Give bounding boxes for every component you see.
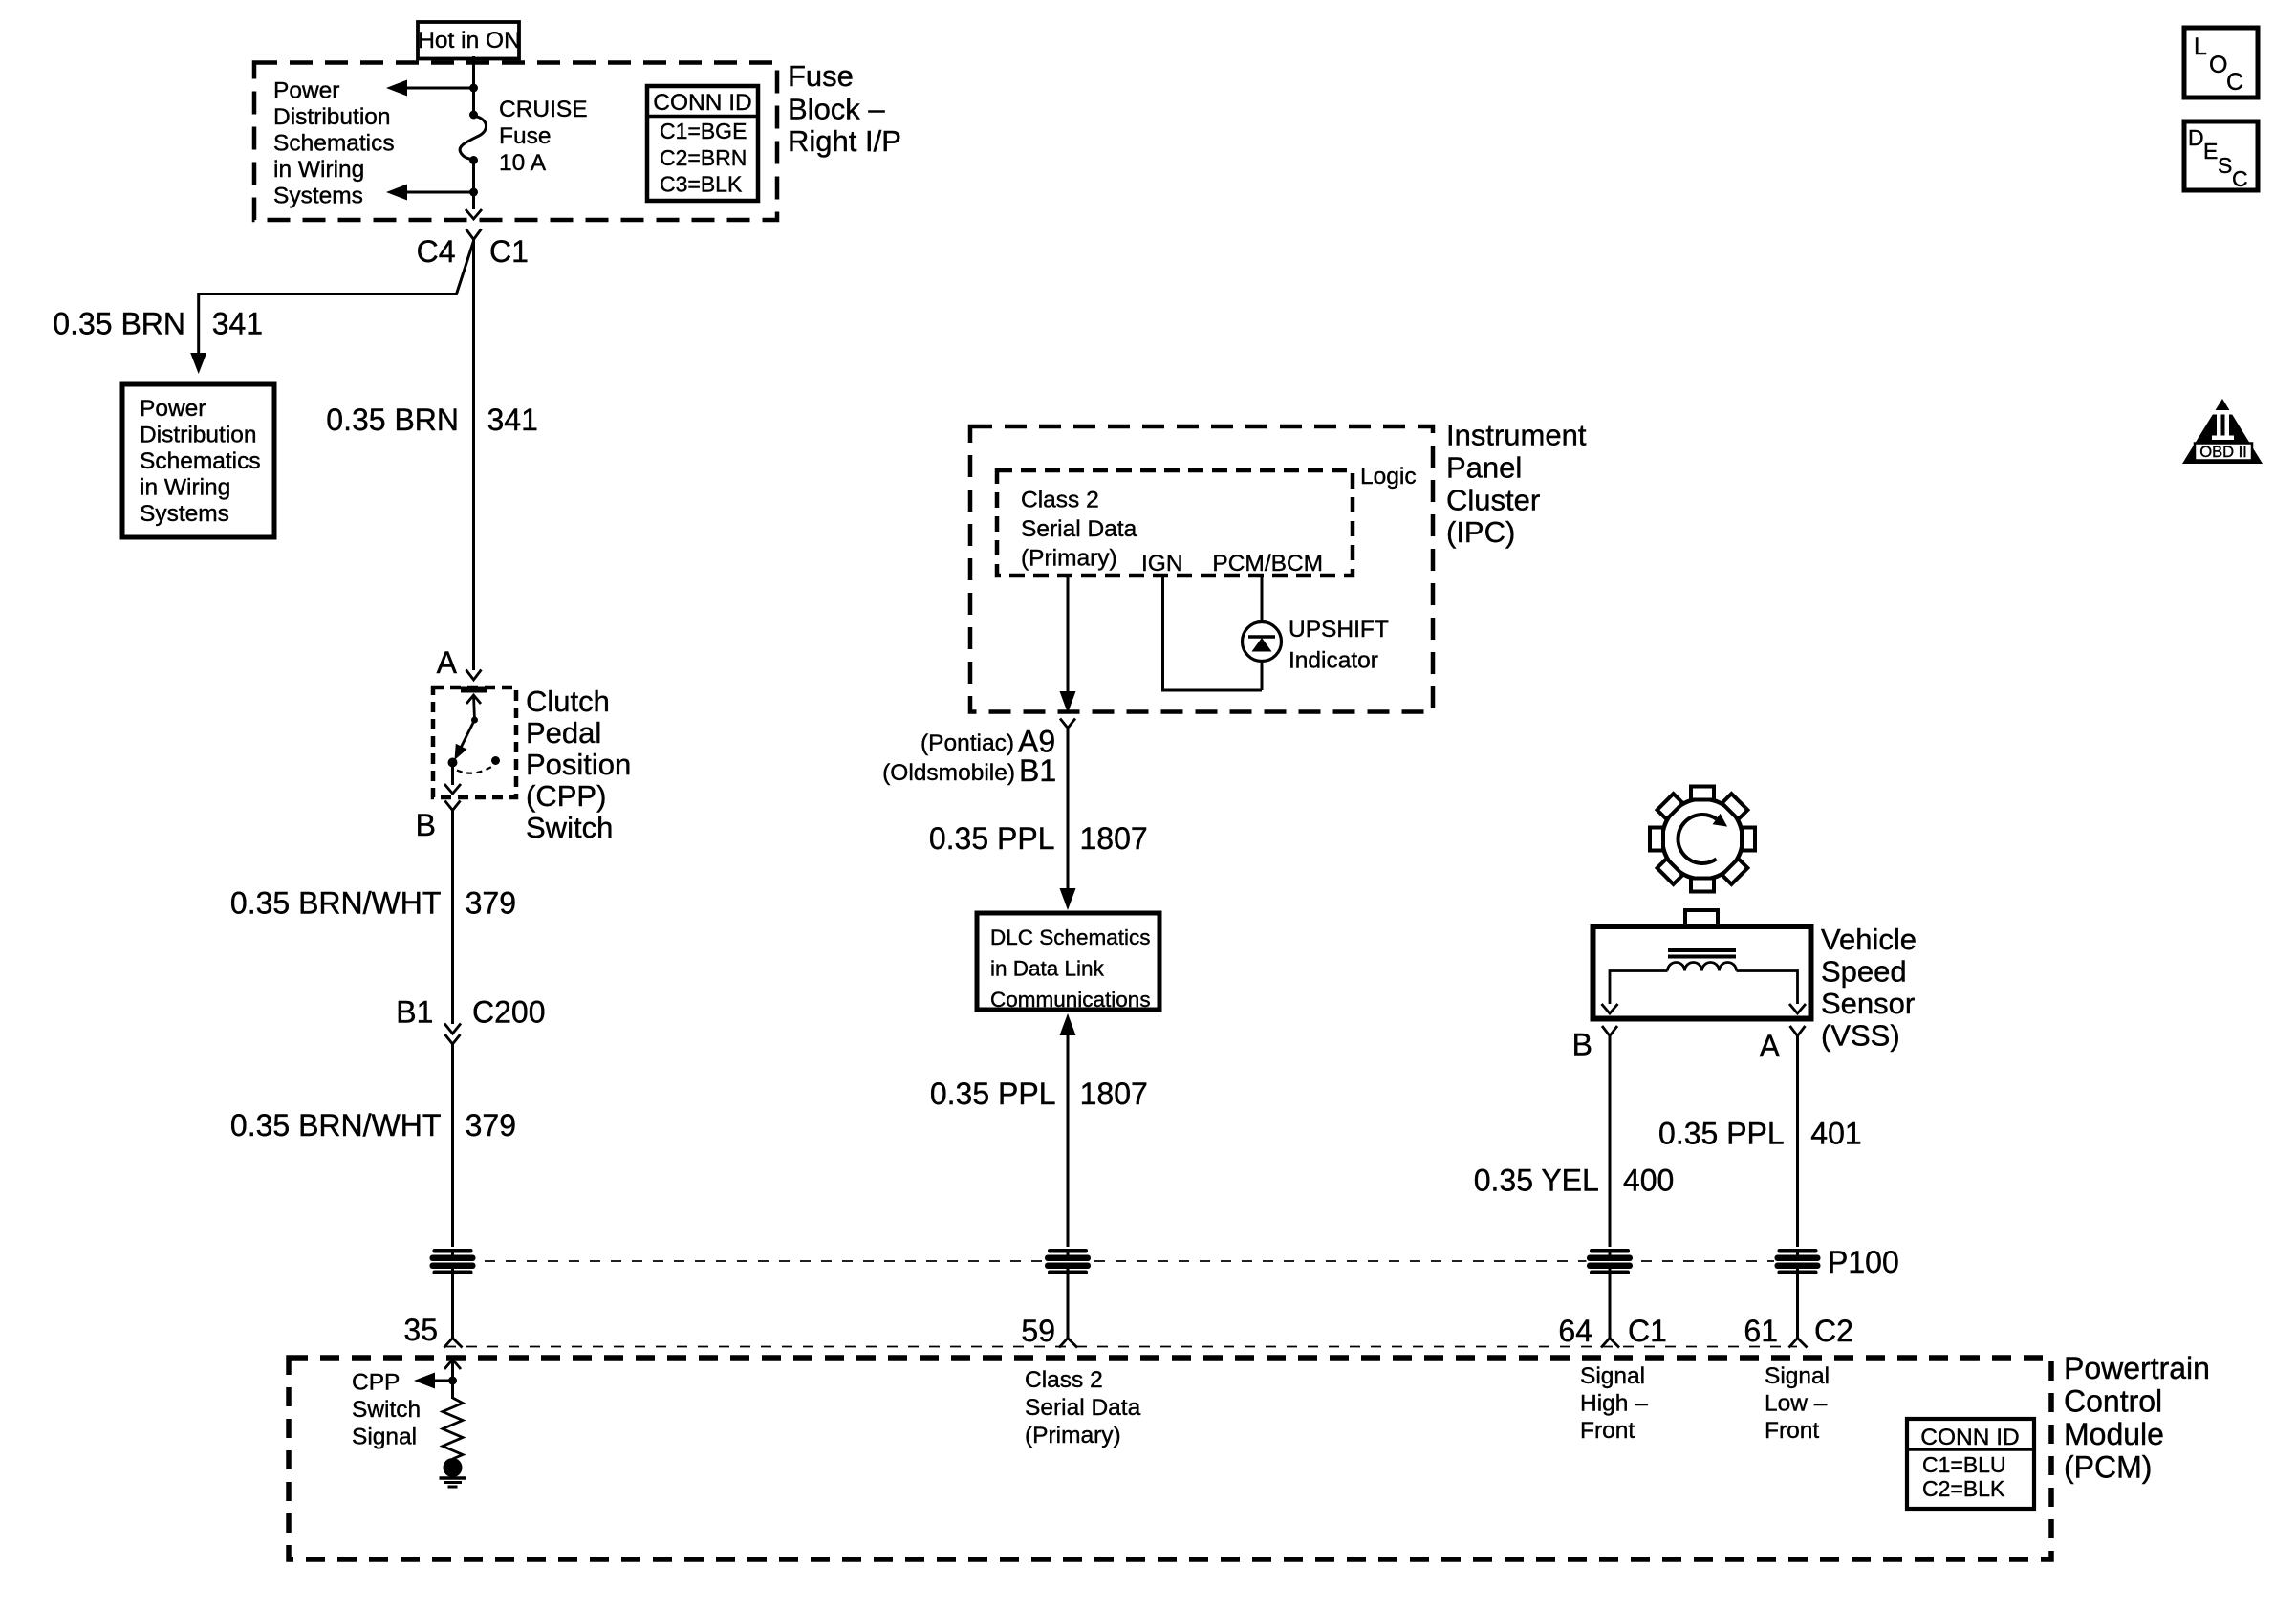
svg-text:(Primary): (Primary) <box>1025 1423 1121 1448</box>
svg-text:E: E <box>2203 139 2218 163</box>
grommet (VSS B wire) <box>1587 1247 1634 1275</box>
connector A (VSS) <box>1760 1026 1806 1063</box>
pin 61 / C2 connector <box>1744 1314 1853 1348</box>
power distribution box <box>122 384 274 537</box>
label 0.35 BRN 341 (branch) <box>53 307 263 341</box>
svg-text:Schematics: Schematics <box>140 448 261 474</box>
svg-text:CRUISE: CRUISE <box>499 97 588 122</box>
svg-text:Signal: Signal <box>1580 1363 1645 1389</box>
wire B down to B1/C200 <box>451 811 454 1025</box>
CONN ID table (fuse block) <box>647 86 758 201</box>
svg-text:(CPP): (CPP) <box>526 779 606 813</box>
wire class 2 serial data down from logic box <box>1060 576 1076 713</box>
svg-text:Systems: Systems <box>273 184 363 209</box>
fuse block dashed box <box>254 63 777 221</box>
CPP switch signal: arrow into PCM <box>352 1360 461 1449</box>
svg-text:Module: Module <box>2064 1417 2164 1451</box>
svg-text:10 A: 10 A <box>499 150 547 176</box>
svg-text:Vehicle: Vehicle <box>1821 923 1917 956</box>
svg-text:Signal: Signal <box>352 1424 417 1449</box>
svg-text:C2=BLK: C2=BLK <box>1922 1476 2005 1501</box>
svg-text:59: 59 <box>1021 1314 1055 1348</box>
wire VSS B down <box>1609 1036 1612 1251</box>
svg-text:C4: C4 <box>417 234 456 269</box>
svg-text:Switch: Switch <box>526 811 613 844</box>
vehicle speed sensor box <box>1593 926 1811 1019</box>
svg-text:0.35 PPL: 0.35 PPL <box>929 821 1055 856</box>
svg-text:High –: High – <box>1580 1391 1648 1417</box>
svg-text:C1=BGE: C1=BGE <box>660 119 747 143</box>
branch wire to power distribution box <box>190 241 473 374</box>
svg-text:in Wiring: in Wiring <box>140 475 230 501</box>
CONN ID table (PCM) <box>1907 1419 2034 1509</box>
svg-text:400: 400 <box>1623 1164 1674 1198</box>
svg-text:Distribution: Distribution <box>140 423 257 448</box>
thin dashed pass-through line P100 <box>464 1260 1818 1262</box>
LOC reference box <box>2184 28 2258 98</box>
svg-text:1807: 1807 <box>1080 821 1148 856</box>
grommet (VSS A wire) <box>1774 1247 1821 1275</box>
svg-text:341: 341 <box>212 307 263 341</box>
svg-text:IGN: IGN <box>1141 551 1183 577</box>
IGN wire <box>1163 576 1263 690</box>
svg-text:Serial Data: Serial Data <box>1025 1395 1141 1421</box>
PCM dashed box <box>289 1358 2051 1559</box>
PCM name label <box>2064 1351 2210 1485</box>
svg-text:Power: Power <box>273 78 339 104</box>
svg-text:Serial Data: Serial Data <box>1021 516 1137 542</box>
fuse CRUISE 10 A <box>460 97 588 176</box>
label 0.35 PPL 1807 (upper) <box>929 821 1148 856</box>
wire down to DLC box <box>1060 729 1076 911</box>
UPSHIFT indicator <box>1243 617 1389 674</box>
svg-text:Low –: Low – <box>1765 1391 1828 1417</box>
connector B1 / C200 <box>396 994 545 1044</box>
arrow up into DLC box and wire down to grommet <box>1060 1013 1076 1250</box>
connector B <box>416 801 461 843</box>
connector A <box>437 645 482 680</box>
svg-text:Logic: Logic <box>1360 464 1417 490</box>
PCM/BCM wire upper <box>1261 576 1264 622</box>
wire/arrow left to power distribution (upper) <box>386 80 474 97</box>
svg-text:(IPC): (IPC) <box>1446 515 1515 549</box>
svg-text:C: C <box>2232 166 2248 191</box>
svg-text:0.35 YEL: 0.35 YEL <box>1474 1164 1599 1198</box>
svg-text:Front: Front <box>1580 1418 1635 1444</box>
svg-text:O: O <box>2209 52 2227 78</box>
svg-text:C3=BLK: C3=BLK <box>660 172 743 197</box>
junction dot lower <box>469 188 478 197</box>
Class 2 Serial Data (Primary) text (IPC) <box>1021 488 1137 572</box>
svg-text:D: D <box>2188 125 2204 150</box>
svg-text:341: 341 <box>487 403 538 437</box>
svg-text:Instrument: Instrument <box>1446 419 1587 452</box>
svg-text:379: 379 <box>466 886 516 921</box>
svg-text:Powertrain: Powertrain <box>2064 1351 2210 1385</box>
grommet (class 2 wire) <box>1045 1247 1092 1275</box>
svg-text:C1: C1 <box>489 234 529 269</box>
svg-text:Clutch: Clutch <box>526 685 610 718</box>
thin dashed connector face line <box>445 1346 1797 1348</box>
svg-text:Fuse: Fuse <box>788 59 854 93</box>
svg-text:Pedal: Pedal <box>526 716 601 750</box>
svg-text:35: 35 <box>403 1313 438 1347</box>
connector B (VSS) <box>1572 1026 1617 1062</box>
resistor (CPP pull-up) <box>443 1398 463 1459</box>
svg-text:Class 2: Class 2 <box>1021 488 1099 513</box>
label 0.35 PPL 401 <box>1658 1117 1862 1151</box>
svg-text:0.35 BRN/WHT: 0.35 BRN/WHT <box>230 886 441 921</box>
PCM/BCM wire lower <box>1261 662 1264 691</box>
svg-text:Right I/P: Right I/P <box>788 124 901 158</box>
svg-text:B: B <box>1572 1028 1592 1062</box>
svg-text:B1: B1 <box>396 994 433 1029</box>
logic dashed box <box>997 470 1353 576</box>
svg-text:Indicator: Indicator <box>1289 648 1378 674</box>
fuse block name label "Fuse Block - Right I/P" <box>788 59 901 158</box>
svg-text:Panel: Panel <box>1446 451 1522 485</box>
svg-text:Cluster: Cluster <box>1446 484 1540 517</box>
svg-text:S: S <box>2218 153 2232 178</box>
pin 35 connector <box>403 1313 462 1348</box>
svg-text:Position: Position <box>526 748 631 781</box>
wire VSS A down <box>1796 1036 1799 1251</box>
svg-text:Front: Front <box>1765 1418 1819 1444</box>
svg-text:61: 61 <box>1744 1314 1778 1348</box>
svg-text:Signal: Signal <box>1765 1363 1830 1389</box>
connector A9/B1 <box>882 719 1075 789</box>
svg-text:64: 64 <box>1558 1314 1592 1348</box>
svg-text:Switch: Switch <box>352 1397 421 1423</box>
wire C200 down to grommet <box>451 1044 454 1250</box>
Signal Low - Front text <box>1765 1363 1830 1444</box>
svg-text:C2=BRN: C2=BRN <box>660 145 747 170</box>
svg-text:B: B <box>416 808 436 842</box>
svg-text:A: A <box>437 645 458 680</box>
svg-text:(Pontiac): (Pontiac) <box>921 730 1014 756</box>
Signal High - Front text <box>1580 1363 1648 1444</box>
svg-text:C200: C200 <box>472 994 546 1029</box>
svg-text:Fuse: Fuse <box>499 123 551 149</box>
svg-text:Hot in ON: Hot in ON <box>418 28 521 54</box>
svg-text:UPSHIFT: UPSHIFT <box>1289 617 1389 642</box>
svg-text:Control: Control <box>2064 1383 2162 1418</box>
svg-text:A: A <box>1760 1029 1781 1063</box>
DESC reference box <box>2184 121 2258 191</box>
grommet (CPP wire) <box>429 1247 476 1275</box>
svg-text:0.35 BRN: 0.35 BRN <box>53 307 185 341</box>
wire from fuse down <box>472 161 475 210</box>
svg-text:1807: 1807 <box>1080 1077 1148 1111</box>
svg-text:in Data Link: in Data Link <box>990 957 1105 981</box>
label 0.35 PPL 1807 (lower) <box>930 1077 1148 1111</box>
svg-text:379: 379 <box>466 1108 516 1143</box>
label "Hot in ON" <box>418 22 521 59</box>
svg-text:CONN ID: CONN ID <box>653 90 751 116</box>
svg-text:CPP: CPP <box>352 1370 400 1396</box>
svg-text:(Primary): (Primary) <box>1021 546 1117 572</box>
wires from grommets down to PCM pins <box>451 1271 454 1339</box>
svg-text:C1: C1 <box>1628 1314 1667 1348</box>
svg-text:Communications: Communications <box>990 988 1151 1012</box>
svg-text:0.35 BRN: 0.35 BRN <box>326 403 459 437</box>
svg-text:Block –: Block – <box>788 92 885 125</box>
svg-text:B1: B1 <box>1019 753 1056 788</box>
svg-text:C2: C2 <box>1814 1314 1853 1348</box>
DLC schematics box <box>977 913 1159 1012</box>
svg-text:CONN ID: CONN ID <box>1920 1425 2019 1450</box>
IPC dashed box <box>970 426 1433 712</box>
Class 2 Serial Data (Primary) text (PCM) <box>1025 1367 1141 1448</box>
VSS mounting tab <box>1685 910 1718 927</box>
pin 59 connector <box>1021 1314 1077 1348</box>
svg-text:Class 2: Class 2 <box>1025 1367 1103 1393</box>
svg-text:Speed: Speed <box>1821 955 1907 989</box>
IPC name label <box>1446 419 1587 550</box>
wire from C1 down to connector A <box>472 240 475 671</box>
VSS name label <box>1821 923 1917 1053</box>
svg-text:401: 401 <box>1810 1117 1861 1151</box>
svg-text:0.35 BRN/WHT: 0.35 BRN/WHT <box>230 1108 441 1143</box>
svg-text:P100: P100 <box>1828 1245 1899 1279</box>
svg-text:(PCM): (PCM) <box>2064 1450 2152 1485</box>
junction dot upper <box>469 84 478 93</box>
pin 64 / C1 connector <box>1558 1314 1667 1348</box>
down arrow at fuse block exit <box>466 209 482 219</box>
svg-text:(VSS): (VSS) <box>1821 1019 1900 1053</box>
label 0.35 YEL 400 <box>1474 1164 1675 1198</box>
svg-text:Distribution: Distribution <box>273 104 391 130</box>
svg-text:L: L <box>2194 33 2207 60</box>
svg-text:Power: Power <box>140 396 206 422</box>
svg-text:Systems: Systems <box>140 501 229 527</box>
svg-text:0.35 PPL: 0.35 PPL <box>930 1077 1056 1111</box>
label 0.35 BRN/WHT 379 (upper) <box>230 886 516 921</box>
wire/arrow left to power distribution (lower) <box>386 185 474 201</box>
svg-text:DLC Schematics: DLC Schematics <box>990 925 1151 949</box>
svg-text:C1=BLU: C1=BLU <box>1922 1452 2006 1477</box>
text: Power Distribution Schematics in Wiring Systems (inside fuse block) <box>273 78 395 209</box>
svg-text:in Wiring: in Wiring <box>273 157 364 183</box>
wire: feed into fuse <box>472 56 475 117</box>
connector C4 / C1 <box>417 229 529 270</box>
CPP switch name label <box>526 685 631 844</box>
svg-text:Schematics: Schematics <box>273 131 395 157</box>
clutch pedal position switch <box>433 687 516 797</box>
svg-text:(Oldsmobile): (Oldsmobile) <box>882 760 1015 786</box>
label 0.35 BRN 341 (main wire) <box>326 403 538 437</box>
ground <box>440 1458 467 1487</box>
svg-text:0.35 PPL: 0.35 PPL <box>1658 1117 1785 1151</box>
OBD II symbol <box>2182 399 2263 464</box>
svg-text:PCM/BCM: PCM/BCM <box>1212 551 1323 577</box>
vehicle speed sensor gear icon <box>1650 787 1755 892</box>
svg-text:OBD II: OBD II <box>2199 444 2247 461</box>
svg-text:Sensor: Sensor <box>1821 987 1915 1020</box>
svg-text:C: C <box>2226 69 2243 96</box>
label 0.35 BRN/WHT 379 (lower) <box>230 1108 516 1143</box>
